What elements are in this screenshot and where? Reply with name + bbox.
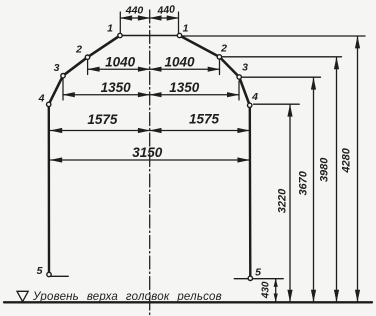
svg-text:3670: 3670 xyxy=(298,170,310,195)
left slope 1-2 xyxy=(88,36,121,58)
svg-text:3220: 3220 xyxy=(277,188,289,213)
node 5 left circle xyxy=(47,272,51,276)
svg-text:4280: 4280 xyxy=(341,147,353,173)
dim 3980 vertical dimension line xyxy=(336,57,338,301)
profile top edge xyxy=(120,35,180,37)
dim 1575 left dimension line xyxy=(50,130,149,132)
node 5 right circle xyxy=(248,276,252,280)
dim 440 left dimension line xyxy=(120,17,149,19)
svg-text:3: 3 xyxy=(242,62,248,74)
svg-text:1: 1 xyxy=(107,23,113,35)
node 1 left circle xyxy=(118,33,122,37)
node 2 right circle xyxy=(217,55,221,59)
node 3 right circle xyxy=(237,75,241,79)
dim 1350 right dimension line xyxy=(150,94,239,96)
dim 1040 right dimension line xyxy=(150,68,220,70)
right wall xyxy=(249,105,252,278)
svg-text:1040: 1040 xyxy=(105,55,136,70)
rail level line xyxy=(4,301,372,303)
dim 3150 dimension line xyxy=(50,159,249,161)
left slope 3-4 xyxy=(49,76,63,105)
right slope 3-4 xyxy=(239,77,250,105)
dim 440 right dimension line xyxy=(150,17,179,19)
svg-text:440: 440 xyxy=(156,3,176,17)
right slope 2-3 xyxy=(219,57,239,77)
dim 3220 vertical dimension line xyxy=(289,105,291,302)
svg-text:3150: 3150 xyxy=(132,145,163,160)
svg-text:3980: 3980 xyxy=(319,157,331,182)
centerline xyxy=(149,10,151,315)
svg-text:440: 440 xyxy=(125,5,144,17)
dim 440 left extension line A xyxy=(119,12,121,33)
svg-text:2: 2 xyxy=(75,44,82,56)
node 4 left circle xyxy=(47,102,51,106)
point 5 right ledge xyxy=(234,278,283,280)
left wall xyxy=(48,104,51,274)
datum triangle symbol xyxy=(17,291,28,301)
svg-text:4: 4 xyxy=(38,93,45,105)
svg-text:1040: 1040 xyxy=(164,54,195,69)
svg-text:1350: 1350 xyxy=(101,80,132,95)
svg-text:430: 430 xyxy=(260,281,271,299)
svg-text:5: 5 xyxy=(37,265,43,277)
reference line level 2 (3980) xyxy=(221,56,342,58)
svg-text:5: 5 xyxy=(255,267,261,279)
svg-text:1350: 1350 xyxy=(169,80,200,95)
dim 1350 left extension line xyxy=(62,79,64,100)
dim 440 right extension line B xyxy=(178,12,180,33)
svg-text:1575: 1575 xyxy=(87,112,118,127)
dim 1575 right dimension line xyxy=(150,130,250,132)
dim 1040 left extension line xyxy=(87,60,89,75)
right slope 1-2 xyxy=(180,36,220,57)
svg-text:Уровень верха головок рельсов: Уровень верха головок рельсов xyxy=(32,291,222,303)
node 4 right circle xyxy=(248,103,252,107)
svg-text:4: 4 xyxy=(251,91,258,103)
reference line level 3 (3670) xyxy=(242,76,321,78)
node 1 right circle xyxy=(177,33,181,37)
left slope 2-3 xyxy=(63,57,88,75)
reference line level 4 (3220) xyxy=(254,103,300,105)
dim 1040 left dimension line xyxy=(88,68,150,70)
dim 430 dimension line xyxy=(275,279,277,302)
svg-text:3: 3 xyxy=(54,62,60,74)
svg-text:2: 2 xyxy=(220,43,227,55)
svg-text:1575: 1575 xyxy=(189,111,220,126)
node 3 left circle xyxy=(61,74,65,78)
top reference line (4280 level) xyxy=(180,35,366,37)
node 2 left circle xyxy=(85,55,89,59)
point 5 left ledge xyxy=(51,275,69,277)
dim 1040 right extension line xyxy=(219,60,221,75)
dim 3670 vertical dimension line xyxy=(313,78,315,302)
svg-text:1: 1 xyxy=(183,23,189,35)
dim 1350 right extension line xyxy=(238,81,240,100)
dim 1350 left dimension line xyxy=(63,94,150,96)
dim 4280 vertical dimension line xyxy=(357,37,359,302)
